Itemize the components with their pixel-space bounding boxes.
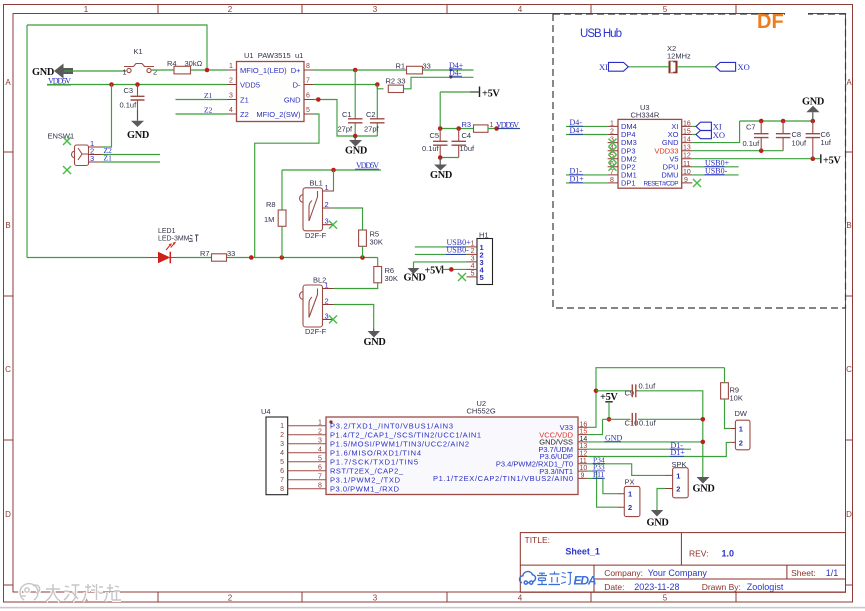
svg-text:C5: C5 — [430, 131, 440, 140]
svg-text:1: 1 — [229, 63, 233, 70]
wire SPK pin2 to GND — [657, 489, 665, 511]
U3 pin numbers right — [683, 120, 691, 183]
svg-text:Z1: Z1 — [240, 95, 249, 104]
svg-text:15: 15 — [580, 429, 588, 436]
wire LED row — [27, 257, 378, 259]
no-connect X U3 pin9 — [693, 179, 701, 187]
svg-text:5: 5 — [280, 459, 284, 466]
svg-text:C: C — [846, 365, 852, 374]
svg-text:6: 6 — [280, 468, 284, 475]
svg-text:30K: 30K — [385, 274, 398, 283]
svg-text:3: 3 — [280, 441, 284, 448]
U4 to U2 pin wires — [288, 426, 326, 489]
svg-text:7: 7 — [280, 477, 284, 484]
wire U2 GND pin14 — [587, 441, 703, 443]
svg-text:+5V: +5V — [482, 89, 500, 100]
svg-text:DP1: DP1 — [621, 179, 636, 188]
svg-text:1: 1 — [676, 471, 680, 480]
svg-text:30K: 30K — [370, 238, 383, 247]
svg-text:1uf: 1uf — [821, 138, 832, 147]
svg-text:VDD5V: VDD5V — [356, 161, 379, 170]
wire Z2 to U1 pin4 — [176, 113, 228, 115]
svg-text:TITLE:: TITLE: — [525, 535, 551, 545]
wire D1- to U3 pin7 — [566, 174, 608, 176]
net flag XO at U3 — [692, 134, 697, 136]
svg-text:2023-11-28: 2023-11-28 — [634, 582, 679, 592]
svg-text:8: 8 — [318, 483, 322, 490]
ground below BL2 wire — [373, 329, 375, 332]
wire to C9 — [596, 390, 631, 392]
svg-text:GND: GND — [693, 484, 715, 495]
ruler tick right — [846, 152, 853, 585]
U2 mark dot — [329, 420, 332, 423]
svg-text:10: 10 — [580, 465, 588, 472]
U3 pin names left — [621, 122, 637, 188]
svg-text:7: 7 — [318, 474, 322, 481]
wire R9 bottom to DW pin1 — [725, 399, 731, 429]
svg-text:13: 13 — [580, 443, 588, 450]
svg-text:D2F-F: D2F-F — [305, 327, 327, 336]
svg-text:D+: D+ — [291, 66, 301, 75]
svg-text:DMU: DMU — [661, 171, 678, 180]
svg-text:6: 6 — [306, 93, 310, 100]
wire R9 top — [724, 368, 726, 383]
svg-text:9: 9 — [581, 472, 585, 479]
svg-text:Your Company: Your Company — [648, 568, 708, 578]
junction — [109, 82, 114, 87]
U3 pin stubs left — [608, 126, 618, 182]
svg-text:MFIO_1(LED): MFIO_1(LED) — [240, 66, 287, 75]
svg-text:VDD5V: VDD5V — [496, 120, 519, 129]
svg-text:D: D — [5, 510, 11, 519]
wire U3 GND pin14 to rail — [692, 121, 739, 143]
wire U1 pin5 SW — [255, 114, 319, 258]
U1 pin numbers — [229, 63, 310, 114]
svg-text:2: 2 — [280, 432, 284, 439]
svg-text:3: 3 — [471, 255, 475, 262]
svg-text:USB0-: USB0- — [705, 167, 728, 176]
svg-text:K1: K1 — [134, 47, 143, 56]
svg-text:RESET#/CDP: RESET#/CDP — [644, 181, 679, 188]
no-connect X U3 pins 3-6 — [609, 139, 617, 147]
svg-text:3: 3 — [325, 311, 329, 320]
svg-text:0.1uf: 0.1uf — [120, 101, 138, 110]
svg-text:1: 1 — [318, 420, 322, 427]
svg-text:33: 33 — [227, 249, 235, 258]
svg-text:27pf: 27pf — [338, 125, 354, 134]
ground below SPK — [651, 510, 664, 517]
svg-text:GND: GND — [647, 518, 669, 529]
wire VDD5V rail — [47, 84, 227, 86]
svg-text:8: 8 — [280, 486, 284, 493]
svg-text:Z2: Z2 — [240, 110, 249, 119]
svg-text:P1.5/MOSI/PWM1/TIN3/UCC2/AIN2: P1.5/MOSI/PWM1/TIN3/UCC2/AIN2 — [330, 439, 469, 448]
svg-text:GND: GND — [284, 95, 301, 104]
svg-text:P1.4/T2_/CAP1_/SCS/TIN2/UCC1/A: P1.4/T2_/CAP1_/SCS/TIN2/UCC1/AIN1 — [330, 430, 481, 439]
svg-text:LED1: LED1 — [158, 228, 176, 235]
svg-text:2: 2 — [610, 129, 614, 136]
svg-text:GND: GND — [404, 273, 426, 284]
EDA logo hanzi 嘉立创 (vector strokes) — [537, 572, 572, 585]
svg-text:GND: GND — [802, 97, 824, 108]
svg-text:Sheet:: Sheet: — [791, 568, 816, 578]
svg-text:0.1uf: 0.1uf — [639, 419, 657, 428]
wire U2 pin11 P34 to SPK pin1 — [587, 464, 665, 476]
svg-text:2: 2 — [153, 68, 157, 77]
svg-text:D2F-F: D2F-F — [305, 231, 327, 240]
svg-text:5: 5 — [471, 270, 475, 277]
svg-text:3: 3 — [373, 594, 378, 603]
svg-text:MFIO_2(SW): MFIO_2(SW) — [256, 110, 301, 119]
svg-text:2: 2 — [229, 78, 233, 85]
wire K1 to R4 — [151, 69, 174, 71]
svg-text:3: 3 — [229, 93, 233, 100]
svg-text:10uf: 10uf — [792, 138, 808, 147]
svg-text:CH334R: CH334R — [631, 111, 660, 120]
svg-text:C3: C3 — [124, 86, 134, 95]
wire X2 to XO flag — [677, 66, 716, 68]
svg-text:1: 1 — [325, 183, 329, 192]
svg-text:14: 14 — [683, 137, 691, 144]
svg-text:RST/T2EX_/CAP2_: RST/T2EX_/CAP2_ — [330, 466, 404, 475]
svg-text:13: 13 — [683, 145, 691, 152]
svg-text:EDA: EDA — [574, 574, 597, 588]
svg-text:XO: XO — [738, 62, 750, 72]
svg-text:DF: DF — [757, 11, 784, 33]
svg-text:VDD5: VDD5 — [240, 80, 260, 89]
svg-text:D1+: D1+ — [570, 175, 585, 184]
wire VDD5V rail 2 — [282, 170, 381, 210]
U1 pin stubs left — [227, 70, 237, 114]
wire top loop — [27, 25, 207, 258]
svg-text:2: 2 — [739, 438, 743, 447]
svg-text:D-: D- — [293, 80, 301, 89]
svg-text:11: 11 — [580, 458, 587, 465]
svg-text:1/1: 1/1 — [826, 568, 839, 578]
ruler tick top — [158, 5, 736, 14]
U2 pin numbers left — [318, 420, 322, 490]
svg-text:BL1: BL1 — [310, 179, 323, 188]
H1 pin numbers outside — [471, 240, 475, 277]
wire U1 D+ row — [314, 69, 407, 71]
wire H1 pin3 to GND — [414, 262, 467, 268]
wire +5V down to C5 rail — [440, 92, 473, 129]
wire caps top rail — [740, 120, 813, 122]
wire C9 right to GND vertical — [638, 391, 703, 477]
wire ENSW1 pin3 net Z1 — [102, 161, 161, 163]
svg-text:+5V: +5V — [425, 266, 443, 277]
wire D4- to U3 pin1 — [566, 125, 608, 127]
svg-text:12: 12 — [683, 153, 691, 160]
svg-text:ENSW1: ENSW1 — [48, 132, 75, 141]
wire XI flag to X2 — [629, 66, 670, 68]
wire U1 D- row — [314, 85, 384, 89]
svg-text:Z1: Z1 — [204, 91, 213, 100]
junction — [135, 82, 140, 87]
svg-text:1: 1 — [739, 425, 743, 434]
hanzi hong (red) — [189, 235, 199, 242]
wire U2 V33 pin16 to top rail — [587, 368, 725, 428]
svg-text:6: 6 — [318, 465, 322, 472]
title block frame — [520, 533, 845, 593]
svg-text:GND: GND — [605, 434, 623, 443]
svg-text:1: 1 — [280, 423, 284, 430]
svg-text:LED-3MM: LED-3MM — [158, 236, 190, 243]
USB Hub dashed region box — [553, 14, 846, 308]
svg-text:GND: GND — [127, 130, 149, 141]
svg-text:5: 5 — [480, 273, 484, 282]
no-connect X bottom of ENSW1 — [63, 166, 71, 174]
wire C10 row / VCC — [587, 419, 703, 434]
svg-text:2: 2 — [676, 485, 680, 494]
svg-text:1.0: 1.0 — [722, 549, 735, 559]
svg-text:16: 16 — [683, 120, 691, 127]
svg-text:REV:: REV: — [689, 549, 709, 559]
svg-text:1M: 1M — [264, 215, 274, 224]
svg-text:7: 7 — [306, 78, 310, 85]
wire U3 VDD33 pin13 — [692, 150, 783, 152]
ground below C5 — [439, 158, 441, 165]
svg-text:R1: R1 — [396, 62, 406, 71]
svg-text:D: D — [846, 510, 852, 519]
svg-text:1: 1 — [84, 5, 89, 14]
svg-text:5: 5 — [663, 5, 668, 14]
svg-text:4: 4 — [518, 594, 523, 603]
wire R1 to D4+ — [423, 69, 474, 71]
ground below C1 C2 — [354, 136, 356, 140]
svg-text:C: C — [5, 365, 11, 374]
svg-text:GND: GND — [430, 170, 452, 181]
svg-text:3: 3 — [373, 5, 378, 14]
svg-text:P1.1/T2EX/CAP2/TIN1/VBUS2/AIN0: P1.1/T2EX/CAP2/TIN1/VBUS2/AIN0 — [433, 474, 573, 483]
ground at H1 pin3 — [408, 268, 420, 274]
net flag XI at U3 — [692, 125, 697, 127]
U2 pin names left — [330, 421, 481, 493]
no-connect X BL1 pin3 — [329, 221, 337, 229]
svg-text:4: 4 — [280, 450, 284, 457]
junction — [360, 255, 365, 260]
wire R4 to U1 pin1 — [191, 69, 228, 71]
no-connect X top of ENSW1 — [63, 137, 71, 145]
svg-text:Date:: Date: — [604, 582, 624, 592]
wire ENSW1 pin2 net Z2 — [102, 154, 161, 156]
svg-text:R7: R7 — [200, 249, 210, 258]
svg-text:2: 2 — [318, 429, 322, 436]
svg-text:C1: C1 — [342, 110, 352, 119]
svg-text:XO: XO — [713, 130, 725, 140]
H1 pin stubs — [467, 247, 478, 277]
svg-text:8: 8 — [610, 177, 614, 184]
svg-text:P3.0/PWM1_/RXD: P3.0/PWM1_/RXD — [330, 484, 400, 493]
ENSW1 body — [72, 145, 102, 166]
svg-text:Zoologist: Zoologist — [747, 582, 784, 592]
svg-text:P3.1/PWM2_/TXD: P3.1/PWM2_/TXD — [330, 475, 401, 484]
svg-text:C2: C2 — [366, 110, 376, 119]
svg-text:2: 2 — [228, 5, 233, 14]
wire to BL1 pin1 — [333, 170, 335, 191]
svg-text:CH552G: CH552G — [467, 407, 496, 416]
wire R8 bottom — [281, 226, 283, 257]
svg-text:P1.6/MISO/RXD1/TIN4: P1.6/MISO/RXD1/TIN4 — [330, 448, 421, 457]
svg-text:12: 12 — [580, 451, 588, 458]
U1 pin names — [240, 66, 301, 119]
U2 pin numbers right — [580, 421, 588, 479]
svg-text:Z1: Z1 — [104, 154, 113, 163]
svg-text:GND: GND — [364, 337, 386, 348]
U3 pin numbers left — [610, 120, 614, 183]
wire U3 DPU pin11 USB0+ — [692, 166, 738, 168]
svg-text:USB Hub: USB Hub — [580, 28, 622, 40]
svg-text:4: 4 — [229, 107, 233, 114]
wire R2 to D4- — [404, 77, 474, 89]
wire U3 DMU pin10 USB0- — [692, 174, 738, 176]
svg-text:3: 3 — [325, 217, 329, 226]
svg-text:2: 2 — [228, 594, 233, 603]
svg-text:7: 7 — [610, 169, 614, 176]
EDA logo cloud icon — [520, 572, 536, 585]
svg-text:33: 33 — [423, 62, 431, 71]
svg-text:9: 9 — [684, 177, 688, 184]
wire H1 pin2 USB0- — [415, 253, 467, 255]
ground above rail — [812, 112, 814, 121]
wire U2 pin9 P11 to PX pin1 — [587, 478, 618, 493]
svg-text:XI: XI — [599, 62, 608, 72]
svg-text:2: 2 — [471, 248, 475, 255]
no-connect X BL2 pin3 — [329, 315, 337, 323]
svg-text:5: 5 — [663, 594, 668, 603]
svg-text:1: 1 — [628, 490, 632, 499]
svg-text:D1+: D1+ — [671, 448, 686, 457]
svg-text:P11: P11 — [593, 470, 605, 479]
junction — [249, 255, 254, 260]
wire D4+ to U3 pin2 — [566, 134, 608, 136]
wire Z1 to U1 pin3 — [176, 99, 228, 101]
svg-text:1: 1 — [325, 281, 329, 290]
power +5V right — [820, 154, 822, 163]
svg-text:5: 5 — [318, 456, 322, 463]
wire D1+ to U3 pin8 — [566, 182, 608, 184]
U4 pin numbers — [280, 423, 284, 493]
wire to R6 — [377, 258, 379, 267]
svg-text:1: 1 — [471, 240, 475, 247]
junction — [280, 255, 285, 260]
svg-text:4: 4 — [471, 263, 475, 270]
U3 pin names right — [644, 122, 680, 188]
LED1 symbol — [146, 257, 158, 259]
wire R6 to BL2 pin1 — [334, 283, 378, 289]
svg-text:B: B — [5, 221, 10, 230]
wire BL2 pin2 to GND — [334, 305, 374, 329]
svg-text:USB0-: USB0- — [447, 245, 470, 254]
svg-text:P1.7/SCK/TXD1/TIN5: P1.7/SCK/TXD1/TIN5 — [330, 457, 418, 466]
svg-text:3: 3 — [90, 154, 94, 163]
wire BL1 pin2 to R5 — [334, 208, 363, 230]
capacitor C1 27pf — [354, 70, 356, 136]
svg-text:1: 1 — [610, 120, 614, 127]
junction — [205, 68, 210, 73]
svg-text:Drawn By:: Drawn By: — [702, 582, 741, 592]
svg-text:A: A — [846, 78, 852, 87]
wire H1 pin1 USB0+ — [415, 246, 467, 248]
no-connect X H1 pin5 — [458, 273, 466, 281]
wire U2 pin13 D1- — [587, 448, 691, 450]
svg-text:C7: C7 — [746, 123, 756, 132]
svg-text:8: 8 — [306, 63, 310, 70]
svg-text:0.1uf: 0.1uf — [743, 139, 761, 148]
ground below vertical — [697, 477, 710, 484]
svg-text:u1: u1 — [295, 51, 303, 60]
U1 pin stubs right — [304, 70, 314, 114]
svg-text:1: 1 — [123, 68, 127, 77]
svg-text:Sheet_1: Sheet_1 — [565, 547, 600, 557]
wire U3 V5 pin12 to +5V — [692, 158, 820, 160]
net flag XO right — [715, 62, 735, 71]
svg-text:15: 15 — [683, 129, 691, 136]
H1 pin numbers inside — [480, 243, 485, 282]
svg-text:PX: PX — [625, 477, 635, 486]
svg-text:14: 14 — [580, 436, 588, 443]
svg-text:R3: R3 — [462, 120, 472, 129]
ruler tick left — [4, 152, 14, 585]
wire U1 GND pin6 — [314, 100, 378, 137]
svg-text:4: 4 — [318, 447, 322, 454]
wire ENSW1 pin1 to VDD5V — [102, 85, 112, 148]
svg-text:12MHz: 12MHz — [667, 52, 691, 61]
capacitor C2 27pf — [376, 85, 378, 137]
svg-text:Company:: Company: — [604, 568, 643, 578]
svg-text:3: 3 — [318, 438, 322, 445]
svg-text:2: 2 — [628, 503, 632, 512]
svg-text:D4+: D4+ — [570, 126, 585, 135]
DFRobot watermark white patch — [785, 8, 808, 29]
svg-text:4: 4 — [518, 5, 523, 14]
wire R3 to VDD5V — [488, 128, 520, 130]
wire R5 bottom — [362, 246, 364, 257]
ground below C3 — [137, 110, 139, 121]
svg-text:10: 10 — [683, 169, 691, 176]
svg-text:16: 16 — [580, 421, 588, 428]
svg-text:C4: C4 — [462, 131, 472, 140]
svg-text:5: 5 — [306, 107, 310, 114]
wire U2 pin10 P33 to PX pin2 — [587, 471, 618, 507]
svg-text:U1 PAW3515: U1 PAW3515 — [244, 51, 291, 60]
svg-text:B: B — [846, 221, 851, 230]
svg-text:2: 2 — [325, 297, 329, 306]
svg-text:10K: 10K — [730, 393, 743, 402]
ENSW1 pin numbers — [90, 139, 94, 163]
svg-text:DW: DW — [735, 409, 748, 418]
svg-text:2: 2 — [325, 200, 329, 209]
svg-text:+5V: +5V — [823, 156, 841, 167]
U3 pin stubs right — [682, 126, 693, 182]
svg-text:U4: U4 — [261, 407, 271, 416]
wire U2 pin12 D1+ to DW pin2 — [587, 442, 730, 456]
svg-text:0.1uf: 0.1uf — [639, 381, 657, 390]
ruler tick bottom — [158, 592, 736, 602]
svg-text:27pf: 27pf — [364, 125, 380, 134]
svg-text:11: 11 — [683, 161, 690, 168]
U2 pin stubs right — [578, 427, 587, 478]
svg-text:R2 33: R2 33 — [386, 77, 406, 86]
svg-text:R8: R8 — [266, 200, 276, 209]
U2 pin names right — [433, 423, 574, 483]
bottom watermark icon — [20, 584, 121, 601]
svg-text:A: A — [5, 78, 11, 87]
grey canvas line below sheet — [0, 607, 865, 609]
power +5V top — [440, 91, 478, 93]
wire C5 C4 bottoms — [440, 157, 459, 159]
svg-text:P3.2/TXD1_/INT0/VBUS1/AIN3: P3.2/TXD1_/INT0/VBUS1/AIN3 — [330, 421, 453, 430]
